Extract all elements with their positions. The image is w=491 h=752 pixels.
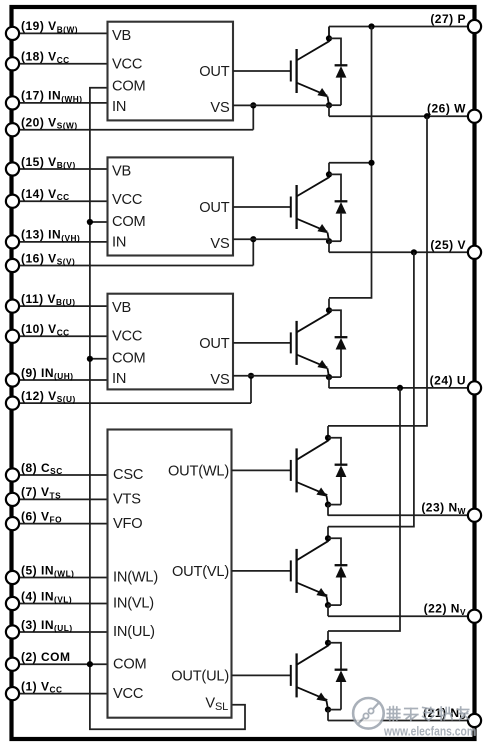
svg-text:OUT: OUT (199, 200, 229, 216)
svg-text:(27) P: (27) P (430, 12, 466, 26)
svg-text:COM: COM (112, 351, 145, 367)
svg-text:VFO: VFO (113, 516, 142, 532)
svg-text:(24) U: (24) U (430, 373, 466, 387)
svg-text:VCC: VCC (112, 329, 142, 345)
svg-text:COM: COM (113, 656, 146, 672)
svg-text:OUT: OUT (199, 64, 229, 80)
svg-text:IN: IN (112, 371, 126, 387)
svg-text:COM: COM (112, 79, 145, 95)
svg-text:VS: VS (210, 372, 230, 388)
svg-text:VB: VB (112, 28, 131, 44)
svg-text:VCC: VCC (113, 686, 143, 702)
svg-text:VB: VB (112, 300, 131, 316)
svg-text:VS: VS (210, 236, 230, 252)
svg-text:(25) V: (25) V (430, 238, 466, 252)
svg-text:IN: IN (112, 235, 126, 251)
svg-text:(22) NV: (22) NV (424, 602, 466, 617)
svg-text:VB: VB (112, 164, 131, 180)
svg-text:VTS: VTS (113, 492, 141, 508)
svg-text:OUT(WL): OUT(WL) (168, 464, 229, 480)
svg-text:(26) W: (26) W (427, 102, 466, 116)
svg-text:IN(UL): IN(UL) (113, 624, 155, 640)
svg-text:VCC: VCC (112, 57, 142, 73)
svg-text:OUT(VL): OUT(VL) (172, 564, 229, 580)
svg-text:COM: COM (112, 214, 145, 230)
svg-text:VS: VS (210, 100, 230, 116)
svg-text:VCC: VCC (112, 192, 142, 208)
svg-text:IN: IN (112, 99, 126, 115)
svg-text:CSC: CSC (113, 467, 143, 483)
svg-text:IN(WL): IN(WL) (113, 570, 158, 586)
svg-text:IN(VL): IN(VL) (113, 596, 154, 612)
svg-text:(2) COM: (2) COM (21, 650, 71, 664)
svg-text:www.elecfans.com: www.elecfans.com (383, 724, 476, 739)
svg-text:OUT(UL): OUT(UL) (171, 669, 229, 685)
svg-text:OUT: OUT (199, 336, 229, 352)
